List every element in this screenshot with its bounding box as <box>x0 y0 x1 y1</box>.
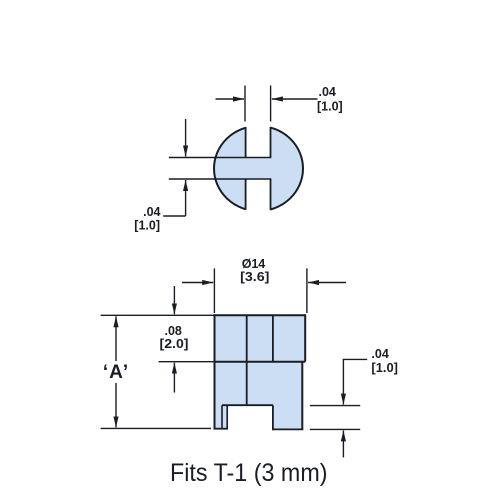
side view row boundary line <box>215 361 306 363</box>
svg-text:[3.6]: [3.6] <box>240 270 269 284</box>
crossbar bottom edge with left extension line <box>169 178 271 180</box>
diameter extension line left <box>213 268 215 313</box>
overall height dimension upper arrow <box>115 316 117 361</box>
top edge extension line left <box>101 314 215 316</box>
diameter dimension arrow left <box>182 282 213 284</box>
side view row1 vertical divider left <box>246 315 248 405</box>
top view circle body <box>214 100 303 224</box>
row boundary extension line left <box>159 361 215 363</box>
diameter dimension text Ø14 [3.6] <box>240 257 269 284</box>
side view right edge upper <box>304 314 306 361</box>
slot width dimension arrow right <box>272 98 318 100</box>
side view right edge lower <box>301 362 303 430</box>
diameter dimension arrow right <box>308 282 346 284</box>
svg-text:Ø14: Ø14 <box>242 257 265 271</box>
foot height dimension upper arrow <box>342 359 344 404</box>
side view left edge <box>214 314 216 428</box>
side view body fill <box>215 315 306 429</box>
top slot right edge <box>270 127 272 158</box>
row height dimension upper arrow <box>173 286 175 314</box>
row height dimension text .08 [2.0] <box>160 324 189 351</box>
crossbar thickness lower arrow <box>185 180 187 216</box>
slot width dimension arrow left <box>216 98 245 100</box>
top slot left edge <box>245 127 247 158</box>
side view top edge <box>214 314 306 316</box>
crossbar top edge with left extension line <box>169 157 271 159</box>
side view bottom recessed edge <box>222 404 273 406</box>
overall height dimension lower arrow <box>115 383 117 427</box>
foot height extension line upper <box>310 405 360 407</box>
foot height dimension text .04 [1.0] <box>371 347 398 375</box>
diameter extension line right <box>306 268 308 313</box>
svg-text:.08: .08 <box>165 324 182 338</box>
side view left leg lines <box>214 405 229 429</box>
bottom slot right edge <box>270 179 272 210</box>
slot width extension line right <box>270 86 272 122</box>
crossbar thickness upper arrow <box>185 119 187 157</box>
bottom extension line left <box>101 427 211 429</box>
crossbar thickness leader line <box>163 215 185 217</box>
svg-text:[2.0]: [2.0] <box>160 337 189 351</box>
svg-text:Fits T-1 (3 mm): Fits T-1 (3 mm) <box>170 459 328 487</box>
svg-text:[1.0]: [1.0] <box>134 219 160 233</box>
side view row1 vertical divider right <box>272 315 274 361</box>
svg-text:‘A’: ‘A’ <box>103 362 129 383</box>
svg-text:.04: .04 <box>371 347 388 361</box>
foot height dimension leader <box>343 358 367 361</box>
foot height extension line lower <box>310 428 360 430</box>
svg-text:[1.0]: [1.0] <box>317 100 343 114</box>
slot width dimension text .04 [1.0] <box>317 85 343 114</box>
svg-text:.04: .04 <box>319 85 336 99</box>
bottom slot left edge <box>245 179 247 210</box>
svg-text:.04: .04 <box>143 205 160 219</box>
side view right foot outline <box>273 405 303 430</box>
crossbar thickness text .04 [1.0] <box>134 205 160 233</box>
svg-text:[1.0]: [1.0] <box>371 361 398 375</box>
row height dimension lower arrow <box>173 363 175 393</box>
slot width extension line left <box>244 86 246 122</box>
foot height dimension lower arrow <box>342 430 344 457</box>
